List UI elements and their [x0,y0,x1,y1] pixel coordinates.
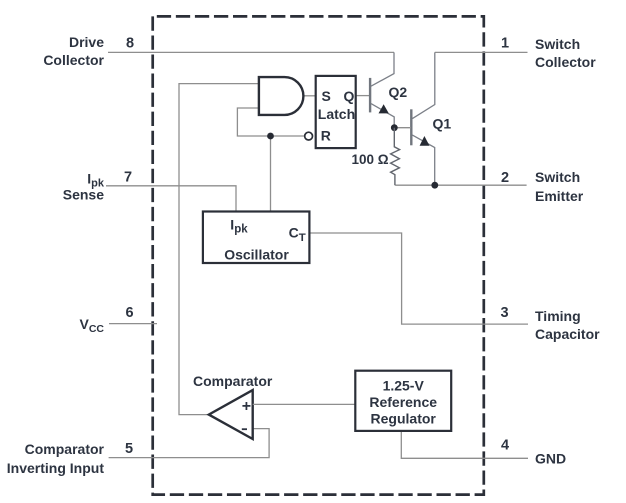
svg-text:Q: Q [344,88,355,104]
wire AND lower input from oscillator [237,108,304,136]
svg-text:S: S [322,88,331,104]
svg-text:Collector: Collector [43,52,104,68]
svg-text:Q2: Q2 [389,84,408,100]
pin 8 wire [108,51,394,53]
svg-text:Capacitor: Capacitor [535,326,600,342]
svg-text:Latch: Latch [318,106,355,122]
svg-text:8: 8 [126,36,134,52]
svg-text:1.25-V: 1.25-V [383,378,425,394]
wire oscillator to R node [270,136,272,212]
comparator minus input [242,428,247,430]
svg-text:4: 4 [501,438,509,454]
svg-text:Sense: Sense [63,187,104,203]
svg-text:2: 2 [501,170,509,186]
svg-text:Q1: Q1 [433,115,452,131]
svg-text:GND: GND [535,451,566,467]
svg-text:5: 5 [125,441,133,457]
svg-text:Collector: Collector [535,54,596,70]
pin 3 wire from oscillator CT [309,233,528,324]
wire AND output to latch S [304,95,316,97]
svg-text:Oscillator: Oscillator [224,246,289,262]
pin 6 wire [109,323,157,325]
transistor Q1 [411,52,435,185]
node junction at R/oscillator [267,133,274,140]
wire comparator output to AND gate (long vertical) [179,84,259,415]
svg-text:Timing: Timing [535,308,581,324]
svg-text:+: + [242,398,251,415]
transistor Q2 [370,52,394,127]
svg-text:Regulator: Regulator [371,410,437,426]
svg-text:6: 6 [125,305,133,321]
svg-text:Reference: Reference [369,394,437,410]
pin 1 wire [435,51,528,53]
reference regulator box [355,371,451,431]
wire comparator plus to reference regulator [253,403,356,405]
dashed IC boundary [153,16,484,494]
svg-text:Drive: Drive [69,34,104,50]
pin 2 wire [395,184,526,186]
svg-text:R: R [321,128,331,144]
svg-text:Switch: Switch [535,36,580,52]
pin 7 wire [106,186,236,212]
svg-text:1: 1 [501,36,509,52]
wire Q2 emitter node to Q1 base [394,127,411,129]
oscillator box [203,212,310,264]
svg-text:VCC: VCC [79,316,104,335]
svg-text:100 Ω: 100 Ω [352,152,389,167]
svg-text:7: 7 [124,169,132,185]
latch R inverting bubble [305,132,313,140]
svg-text:Emitter: Emitter [535,188,584,204]
node junction Q2 emitter / Q1 base [391,124,398,131]
wire latch Q to Q2 base [356,95,369,97]
latch box [316,76,356,148]
svg-text:Inverting Input: Inverting Input [7,460,105,476]
svg-text:3: 3 [500,305,508,321]
pin 4 wire from reference regulator [401,431,528,458]
svg-text:Comparator: Comparator [25,441,105,457]
svg-text:Switch: Switch [535,169,580,185]
pin 5 wire [109,429,270,458]
node junction Q1 emitter on pin2 wire [431,182,438,189]
svg-text:Comparator: Comparator [193,373,273,389]
comparator U2 triangle [209,390,253,439]
AND gate U1 [259,77,304,115]
resistor 100 ohm [391,128,400,186]
